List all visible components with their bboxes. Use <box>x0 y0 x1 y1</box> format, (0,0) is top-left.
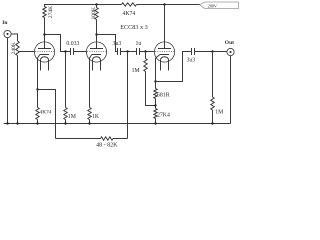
output jack J2 <box>227 48 234 55</box>
resistor 4K74 (V1 cathode) <box>37 90 39 108</box>
svg-text:In: In <box>2 20 7 26</box>
triode V2 cathode bar <box>92 54 101 56</box>
node ground: 1M output load <box>211 122 213 124</box>
wire feedback bottom right segment <box>113 138 128 140</box>
triode V1 cathode bar <box>40 54 49 56</box>
wire input jack shield to ground rail <box>7 38 9 124</box>
node output / 1M load junction <box>211 50 213 52</box>
wire V2 cathode lead <box>90 55 92 63</box>
svg-text:4K74: 4K74 <box>40 109 52 115</box>
node ground: 1K <box>88 122 90 124</box>
wire V3 plate to top rail <box>164 5 166 49</box>
wire 1M bottom to 681R/27K4 junction <box>146 72 156 106</box>
node ground: 1M <box>64 122 66 124</box>
wire feedback bottom left segment <box>56 138 101 140</box>
resistor 240K (input load) <box>16 41 19 56</box>
capacitor 3u3 (output) <box>191 48 193 55</box>
svg-text:1K: 1K <box>92 114 100 120</box>
resistor 274K (V1 plate load) <box>43 7 46 18</box>
wire V1 plate node to 0.033 cap <box>45 35 71 52</box>
wire 1u to V3 grid <box>140 51 155 53</box>
triode V1 plate <box>38 48 51 50</box>
resistor 1M (V2 grid side) <box>65 52 67 108</box>
node V2 plate junction <box>95 33 97 35</box>
svg-text:3u3: 3u3 <box>113 41 122 47</box>
triode V2 heater <box>93 57 101 71</box>
svg-text:681R: 681R <box>157 92 170 98</box>
wire feedback from node A down (crosses ground rail) <box>127 52 129 139</box>
triode V2 grid (dashed) <box>87 51 106 53</box>
wire Out jack shield to ground rail <box>230 56 232 124</box>
svg-text:240K: 240K <box>11 42 17 54</box>
triode V2 envelope <box>86 42 106 62</box>
input jack J1 <box>4 30 11 37</box>
resistor 48 - 82K (feedback) <box>101 137 114 140</box>
resistor 1M (V3 grid leak) <box>145 52 147 59</box>
svg-text:4K74: 4K74 <box>122 11 135 17</box>
capacitor 1u (coupling) <box>136 48 138 55</box>
triode V1 grid (dashed) <box>35 51 54 53</box>
wire top supply rail left segment <box>45 5 122 7</box>
svg-text:1M: 1M <box>132 68 140 74</box>
node top rail / V3 plate junction <box>163 3 165 5</box>
supply voltage flag 280V <box>200 2 239 9</box>
node 0.033 / 1M junction <box>64 50 66 52</box>
node V1 cathode junction <box>36 88 38 90</box>
wire 100K bottom to V2 plate <box>96 20 98 49</box>
node ground: 4K74 cathode <box>36 122 38 124</box>
triode V3 plate <box>158 48 171 50</box>
svg-text:1M: 1M <box>215 109 223 115</box>
wire top supply rail right segment to supply flag <box>137 4 200 6</box>
wire V2 plate node to 3u3 cap <box>97 35 118 52</box>
node V3 cathode junction <box>154 80 156 82</box>
node V3 grid junction <box>144 50 146 52</box>
wire ground rail <box>4 123 231 125</box>
node top rail / 100K junction <box>95 3 97 5</box>
triode V3 cathode bar <box>160 54 169 56</box>
resistor 4K74 (plate supply, horizontal in top rail) <box>122 3 137 6</box>
svg-text:274K: 274K <box>48 6 54 18</box>
svg-text:100K: 100K <box>91 7 97 19</box>
triode V1 heater <box>41 57 49 71</box>
resistor 1K (V2 cathode) <box>88 108 91 120</box>
wire 0.033 to V2 grid <box>74 51 87 53</box>
wire 3u3 to node A <box>121 51 137 53</box>
resistor 100K (V2 plate load) <box>96 5 98 8</box>
svg-text:3u3: 3u3 <box>186 58 195 64</box>
wire input jack tip to 240K <box>11 34 17 41</box>
node 681R / 27K4 junction <box>154 104 156 106</box>
triode V3 grid (dashed) <box>155 51 174 53</box>
node ground: input shield <box>6 122 8 124</box>
wire V3 cathode lead <box>156 55 160 63</box>
wire V1 cathode lead <box>38 55 40 63</box>
wire V1 cathode to feedback (crosses ground rail) <box>38 90 56 139</box>
resistor 681R (V3 cathode upper) <box>155 82 157 89</box>
capacitor 0.033 (coupling) <box>70 48 72 55</box>
svg-text:280V: 280V <box>208 3 217 8</box>
svg-text:Out: Out <box>225 40 234 46</box>
node A (3u3 / 1u / feedback) <box>126 50 128 52</box>
wire output cap to Out jack <box>195 51 227 53</box>
triode V2 plate <box>90 48 103 50</box>
resistor 27K4 (V3 cathode lower) <box>155 106 157 109</box>
triode V1 envelope <box>34 42 54 62</box>
svg-text:ECC83 x 3: ECC83 x 3 <box>120 24 148 31</box>
svg-text:1M: 1M <box>68 114 76 120</box>
capacitor 3u3 (coupling) <box>117 48 119 55</box>
node V1 plate junction <box>43 33 45 35</box>
wire V3 cathode to output cap <box>156 52 192 82</box>
resistor 1M (output load) <box>212 52 214 98</box>
triode V3 heater <box>161 57 169 71</box>
triode V3 envelope <box>154 42 174 62</box>
wire 240K tap to V1 grid <box>19 51 34 53</box>
svg-text:27K4: 27K4 <box>157 112 170 118</box>
svg-text:0.033: 0.033 <box>66 41 79 47</box>
svg-text:1u: 1u <box>136 41 142 47</box>
node ground: 27K4 <box>154 122 156 124</box>
wire 274K bottom to V1 plate <box>44 18 46 49</box>
svg-text:48 - 82K: 48 - 82K <box>96 142 118 148</box>
node ground: 240K <box>16 122 18 124</box>
wire 240K bottom to ground rail <box>17 56 19 124</box>
